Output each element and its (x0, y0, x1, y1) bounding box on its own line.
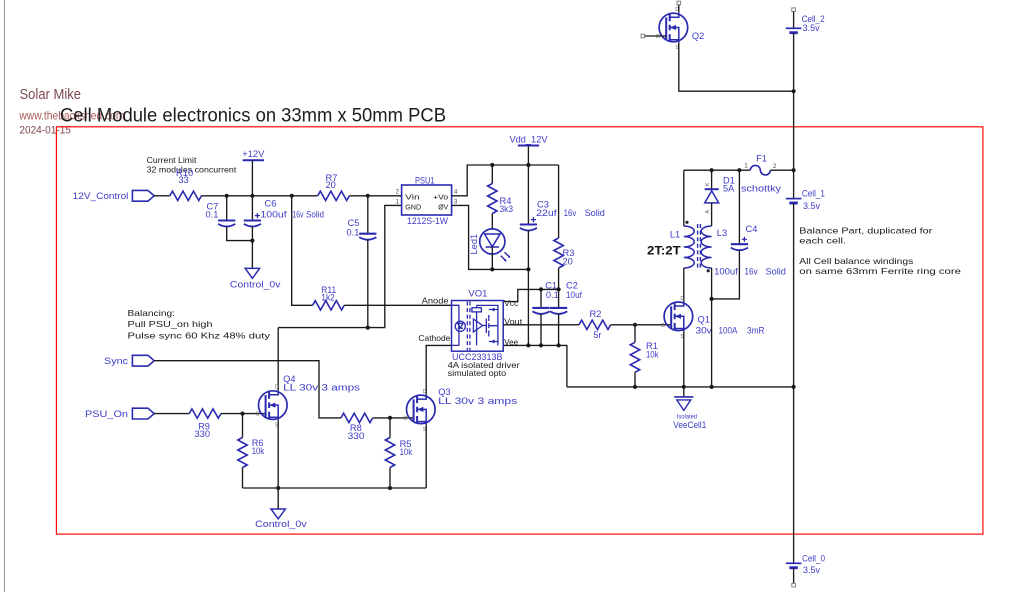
resistor R8 (341, 413, 373, 422)
junction C7 (225, 194, 229, 198)
wire control ground rail (243, 487, 427, 489)
svg-text:330: 330 (195, 429, 211, 439)
svg-text:330: 330 (348, 431, 365, 441)
svg-text:100uf: 100uf (261, 210, 288, 220)
svg-text:3.5v: 3.5v (803, 201, 820, 211)
svg-text:Solid: Solid (585, 208, 605, 218)
capacitor C6 (251, 196, 253, 221)
resistor R2 (579, 320, 611, 329)
svg-text:3: 3 (454, 199, 458, 205)
wire isolated bottom rail (567, 386, 794, 388)
battery Cell_0 (786, 562, 802, 564)
svg-text:Vcc: Vcc (504, 299, 518, 308)
svg-text:100uf: 100uf (714, 267, 738, 277)
connector 12V_Control (132, 190, 154, 201)
svg-text:Vin: Vin (405, 193, 420, 202)
svg-text:VeeCell1: VeeCell1 (673, 420, 706, 430)
svg-text:Cell Module electronics on 33m: Cell Module electronics on 33mm x 50mm P… (60, 105, 446, 127)
inductor L1 (683, 170, 685, 226)
page left border line (4, 0, 6, 592)
svg-text:10k: 10k (646, 350, 659, 360)
svg-text:Anode: Anode (422, 296, 450, 305)
ground Control_0v lower (277, 488, 279, 509)
wire +Vo to Vdd rail (452, 165, 559, 196)
svg-text:K: K (705, 182, 711, 186)
svg-text:1: 1 (744, 164, 748, 170)
resistor R9 (189, 409, 221, 418)
svg-text:1: 1 (396, 199, 400, 205)
svg-text:3mR: 3mR (747, 326, 765, 336)
svg-text:L1: L1 (670, 229, 680, 239)
svg-text:Vdd_12V: Vdd_12V (510, 135, 549, 145)
svg-text:0.1: 0.1 (205, 209, 218, 219)
svg-text:3.5v: 3.5v (803, 23, 820, 33)
resistor R5 (389, 418, 391, 438)
wire Q4 drain column (277, 328, 279, 391)
junction C6 (250, 194, 254, 198)
opto driver VO1 UCC23313B box (452, 301, 504, 352)
svg-text:Q2: Q2 (692, 31, 704, 41)
svg-text:VO1: VO1 (468, 288, 487, 298)
svg-text:Cathode: Cathode (418, 334, 451, 343)
wire PSU_On to R9 (154, 413, 189, 415)
svg-text:2T:2T: 2T:2T (647, 244, 681, 258)
wire L3 bottom (711, 268, 713, 387)
svg-text:ØV: ØV (438, 202, 449, 211)
wire Q4 source (277, 420, 279, 488)
resistor R10 (170, 191, 202, 200)
resistor R3 (558, 165, 560, 238)
PSU1 module UCC 1212S-1W box (402, 185, 452, 215)
svg-text:+12V: +12V (242, 149, 265, 159)
svg-text:GND: GND (405, 202, 421, 211)
svg-text:Solid: Solid (306, 210, 324, 220)
svg-text:G: G (656, 34, 660, 40)
svg-text:G: G (661, 323, 665, 329)
svg-text:G: G (255, 412, 259, 418)
wire cell column upper (793, 33, 795, 199)
svg-text:F1: F1 (756, 154, 767, 164)
battery Cell_1 (786, 198, 802, 200)
transistor Q4 (259, 391, 288, 420)
wire connector to R10 (154, 195, 170, 197)
ground Isolated VeeCell1 (683, 387, 685, 397)
capacitor C7 (226, 196, 228, 221)
svg-text:All Cell balance windings: All Cell balance windings (799, 256, 913, 266)
svg-text:each cell.: each cell. (799, 236, 846, 246)
svg-text:5r: 5r (593, 330, 601, 340)
wire VO1 cathode to Q3 drain (426, 345, 451, 394)
resistor R11 (292, 196, 313, 305)
wire Q2 source to cell column (679, 42, 794, 91)
capacitor C4 (738, 170, 740, 244)
svg-text:30v: 30v (696, 326, 713, 336)
resistor R1 (634, 325, 636, 343)
svg-text:2: 2 (773, 164, 777, 170)
svg-text:1212S-1W: 1212S-1W (407, 216, 448, 226)
svg-text:+Vo: +Vo (433, 193, 448, 202)
wire F1 to cell column (770, 169, 793, 171)
svg-text:A: A (705, 210, 711, 214)
wire Q1 source (683, 331, 685, 387)
wire cell column lower (793, 203, 795, 563)
svg-text:Solar Mike: Solar Mike (20, 87, 82, 103)
wire Q3 source (425, 424, 427, 488)
svg-text:D: D (275, 385, 279, 391)
svg-text:Control_0v: Control_0v (230, 280, 281, 290)
svg-text:G: G (403, 416, 407, 422)
svg-text:simulated opto: simulated opto (448, 369, 507, 378)
power symbol Vdd_12V (518, 145, 539, 147)
svg-text:0.1: 0.1 (346, 228, 359, 238)
svg-text:10k: 10k (252, 446, 265, 456)
svg-text:C5: C5 (348, 218, 360, 228)
svg-text:C6: C6 (265, 198, 277, 208)
resistor R6 (242, 414, 244, 438)
svg-text:33: 33 (178, 175, 188, 185)
wire R11 to VO1 anode (344, 304, 451, 306)
power symbol +12V (243, 159, 264, 161)
Q2 drain pin (677, 1, 681, 5)
svg-text:Vee: Vee (504, 338, 518, 347)
wire L1 to Q1 drain (683, 268, 685, 302)
svg-text:Cell_0: Cell_0 (802, 554, 825, 564)
svg-text:20: 20 (563, 257, 573, 267)
svg-text:Control_0v: Control_0v (255, 519, 307, 529)
fuse F1 (750, 165, 770, 175)
svg-text:schottky: schottky (741, 184, 781, 194)
connector Sync (132, 355, 154, 366)
wire 0V rail (452, 205, 529, 269)
svg-text:Solid: Solid (766, 267, 786, 277)
svg-text:Pull PSU_on high: Pull PSU_on high (128, 319, 213, 329)
capacitor C5 (367, 196, 369, 234)
capacitor C3 (527, 165, 529, 225)
wire R9 to Q4 gate (221, 413, 266, 415)
wire top secondary (684, 169, 751, 171)
svg-text:Q1: Q1 (698, 315, 710, 325)
wire Vout to R2 (503, 324, 579, 326)
svg-text:LL 30v 3 amps: LL 30v 3 amps (283, 383, 360, 393)
transformer core (698, 224, 701, 270)
svg-text:5A: 5A (723, 184, 735, 194)
wire +12V stem (251, 160, 253, 196)
transistor Q1 (664, 302, 693, 331)
Q2 gate pin (641, 34, 645, 38)
capacitor C2 (558, 289, 560, 308)
svg-text:3k3: 3k3 (500, 204, 514, 214)
wire PSU GND net (278, 205, 401, 327)
svg-text:16v: 16v (293, 210, 304, 220)
resistor R4 (491, 165, 493, 184)
svg-text:Balancing:: Balancing: (128, 308, 176, 318)
junction R11 (290, 194, 294, 198)
svg-text:10uf: 10uf (566, 290, 582, 300)
transistor Q3 (407, 395, 436, 424)
transistor Q2 (659, 13, 688, 42)
svg-text:Pulse sync 60 Khz 48% duty: Pulse sync 60 Khz 48% duty (128, 331, 272, 341)
svg-text:R2: R2 (590, 309, 602, 319)
svg-text:4: 4 (454, 190, 458, 196)
svg-text:L3: L3 (717, 228, 727, 238)
battery Cell_2 (792, 8, 796, 12)
svg-text:22uf: 22uf (536, 208, 557, 218)
svg-text:12V_Control: 12V_Control (73, 191, 129, 201)
svg-text:Led1: Led1 (469, 234, 479, 255)
svg-text:Current Limit: Current Limit (147, 155, 198, 165)
svg-text:PSU_On: PSU_On (85, 409, 128, 419)
wire main control rail (201, 195, 317, 197)
wire Vcc rail (558, 268, 560, 289)
svg-text:100A: 100A (719, 326, 739, 336)
svg-text:PSU1: PSU1 (415, 175, 435, 185)
svg-text:C4: C4 (746, 224, 758, 234)
svg-text:20: 20 (326, 180, 336, 190)
diode D1 schottky (711, 170, 713, 189)
svg-text:10k: 10k (400, 447, 413, 457)
resistor R7 (318, 191, 350, 200)
connector PSU_On (132, 408, 154, 419)
wire R2 to Q1 gate (611, 324, 672, 326)
svg-text:Sync: Sync (104, 356, 128, 366)
svg-text:16v: 16v (564, 208, 577, 218)
wire sync line (154, 361, 341, 418)
wire Vee rail (503, 345, 567, 387)
svg-text:3.5v: 3.5v (803, 565, 820, 575)
junction C5 (366, 194, 370, 198)
wire R7 to PSU1 (349, 195, 401, 197)
svg-text:LL 30v 3 amps: LL 30v 3 amps (438, 396, 517, 406)
inductor L3 (701, 226, 711, 268)
svg-text:on same 63mm Ferrite ring core: on same 63mm Ferrite ring core (799, 266, 961, 276)
svg-text:2: 2 (396, 190, 400, 196)
wire R8 to Q3 gate (373, 417, 414, 419)
svg-text:Cell_1: Cell_1 (802, 189, 825, 199)
red sheet border (56, 127, 983, 534)
ground Control_0v upper (251, 241, 253, 269)
svg-text:16v: 16v (744, 267, 758, 277)
VO1 internals (452, 302, 498, 351)
svg-text:0.1: 0.1 (546, 290, 559, 300)
svg-text:Balance Part, duplicated for: Balance Part, duplicated for (799, 225, 932, 235)
LED Led1 (491, 214, 493, 230)
svg-text:1k2: 1k2 (321, 293, 335, 303)
capacitor C1 (540, 289, 542, 308)
